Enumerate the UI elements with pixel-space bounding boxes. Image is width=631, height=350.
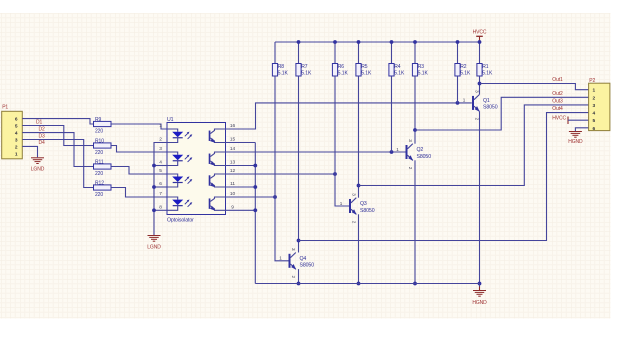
resistor R6 5.1K	[332, 42, 348, 77]
svg-text:R9: R9	[95, 117, 102, 123]
svg-text:S8050: S8050	[360, 208, 375, 214]
svg-text:5.1K: 5.1K	[482, 71, 493, 77]
connector P2	[589, 78, 610, 132]
svg-text:11: 11	[230, 181, 235, 187]
svg-text:Q1: Q1	[483, 98, 490, 104]
svg-text:P2: P2	[589, 78, 595, 84]
resistor R2 5.1K	[455, 42, 471, 77]
svg-text:5: 5	[159, 168, 162, 174]
svg-text:Out3: Out3	[552, 98, 563, 104]
svg-text:R7: R7	[301, 64, 308, 70]
svg-text:Out2: Out2	[552, 91, 563, 97]
net label Out1	[552, 77, 563, 83]
transistor Q2 S8050	[396, 139, 431, 170]
ground LGND at P1	[31, 158, 45, 173]
svg-text:S8050: S8050	[417, 154, 432, 160]
svg-text:R10: R10	[95, 138, 104, 144]
svg-text:D4: D4	[39, 140, 46, 146]
svg-text:1: 1	[15, 151, 18, 157]
LED D2 inside U1 channel 2	[167, 152, 192, 166]
junction Q3 collector node	[357, 184, 361, 188]
svg-text:Out4: Out4	[552, 106, 563, 112]
svg-text:2: 2	[159, 137, 162, 143]
junction R8 column pin10	[273, 195, 277, 199]
net label D1	[36, 120, 43, 126]
svg-text:R5: R5	[361, 64, 368, 70]
resistor R4 5.1K	[389, 42, 405, 77]
svg-text:U1: U1	[167, 117, 174, 123]
resistor R7 5.1K	[296, 42, 312, 77]
svg-text:2: 2	[291, 276, 296, 279]
svg-text:Out1: Out1	[552, 77, 563, 83]
svg-text:7: 7	[159, 191, 162, 197]
wire Q2 collector to R3 node	[414, 76, 416, 144]
junction top bus at R4	[390, 40, 394, 44]
wire HGND emitter bus bottom	[255, 283, 479, 285]
svg-text:3: 3	[15, 138, 18, 144]
svg-text:R2: R2	[460, 64, 467, 70]
svg-text:5.1K: 5.1K	[361, 71, 372, 77]
ground LGND at U1	[147, 236, 161, 251]
svg-text:R11: R11	[95, 159, 104, 165]
wire HGND bus drop to ground	[479, 284, 481, 291]
svg-text:3: 3	[593, 103, 596, 109]
resistor R3 5.1K	[412, 42, 428, 77]
wire P1 pin3 to R12 (net D4)	[22, 140, 93, 188]
wire U1 pin9 to emitter bus	[226, 209, 256, 211]
svg-text:2: 2	[475, 118, 480, 121]
svg-text:3: 3	[159, 146, 162, 152]
svg-text:D1: D1	[36, 120, 43, 126]
svg-text:HVCC: HVCC	[552, 115, 566, 121]
svg-text:R4: R4	[394, 64, 401, 70]
svg-text:LGND: LGND	[147, 245, 161, 251]
resistor R9 220	[94, 117, 112, 135]
svg-text:5: 5	[15, 124, 18, 130]
svg-text:R1: R1	[482, 64, 489, 70]
wire R12 to U1 pin7	[111, 188, 167, 198]
junction top bus at R7	[297, 40, 301, 44]
svg-text:5: 5	[593, 118, 596, 124]
svg-text:8: 8	[159, 205, 162, 211]
power HVCC at P2 pin5	[552, 115, 588, 124]
wire Out3 Q3 collector to P2 pin3	[359, 105, 589, 186]
junction pin9 emitter bus	[253, 208, 257, 212]
svg-text:1: 1	[159, 123, 162, 129]
wire Q3 collector to R5 node	[358, 76, 360, 198]
junction U1 pin4 cathode bus	[152, 164, 156, 168]
svg-text:5.1K: 5.1K	[278, 71, 289, 77]
junction Q1 collector node	[478, 82, 482, 86]
svg-text:16: 16	[230, 123, 236, 129]
wire HVCC top bus	[275, 41, 480, 43]
svg-text:220: 220	[95, 128, 103, 134]
U1 right pin numbers 16-9	[230, 123, 236, 210]
svg-text:6: 6	[15, 117, 18, 123]
resistor R10 220	[94, 138, 112, 156]
svg-text:HVCC: HVCC	[473, 30, 487, 36]
junction R4 on Q2 base net	[390, 76, 394, 154]
svg-text:3: 3	[408, 139, 413, 142]
svg-text:220: 220	[95, 171, 103, 177]
svg-text:5.1K: 5.1K	[460, 71, 471, 77]
svg-text:2: 2	[15, 144, 18, 150]
svg-text:Q2: Q2	[417, 147, 424, 153]
junction top bus at R3	[413, 40, 417, 44]
svg-text:D3: D3	[39, 134, 46, 140]
wire U1 pin12 to R6 column	[226, 173, 336, 175]
svg-text:2: 2	[593, 95, 596, 101]
svg-text:D2: D2	[39, 126, 46, 132]
connector P1	[2, 105, 23, 159]
wire Q2 emitter to HGND bus	[414, 160, 416, 283]
wire U1 pin11 to emitter bus	[226, 186, 256, 188]
phototransistor inside U1 channel 1	[209, 129, 226, 143]
svg-text:5.1K: 5.1K	[338, 71, 349, 77]
wire opto emitter bus vertical	[254, 143, 256, 284]
junction U1 pin8 cathode bus	[152, 208, 156, 212]
wire P1 pin6 to R9 (net D1)	[22, 119, 93, 124]
LED D4 inside U1 channel 4	[167, 197, 192, 210]
power HVCC top	[473, 30, 487, 42]
wire R9 to U1 pin1	[111, 124, 167, 129]
wire U1 pin14 to Q2 base with R4 pullup	[226, 151, 406, 153]
svg-text:R12: R12	[95, 180, 104, 186]
svg-text:15: 15	[230, 137, 236, 143]
junction Q2 collector node	[413, 128, 417, 132]
svg-text:2: 2	[352, 221, 357, 224]
junction top bus at R1	[478, 40, 482, 44]
resistor R8 5.1K	[272, 42, 288, 77]
wire Q4 collector to R7 node	[298, 76, 300, 253]
svg-text:10: 10	[230, 191, 236, 197]
wire P1 pin5 to R10 (net D2)	[22, 126, 93, 146]
svg-text:220: 220	[95, 192, 103, 198]
junction pin11 emitter bus	[253, 185, 257, 189]
svg-text:1: 1	[593, 88, 596, 94]
transistor Q3 S8050	[340, 193, 375, 224]
svg-text:4: 4	[159, 160, 162, 166]
svg-text:3: 3	[475, 90, 480, 93]
net label D4	[39, 140, 46, 146]
resistor R1 5.1K	[477, 42, 493, 77]
junction Q4 collector node	[297, 239, 301, 243]
wire R10 to U1 pin3	[111, 146, 167, 153]
wire Q1 collector to R1 and Out1 node	[479, 76, 481, 95]
transistor Q1 S8050	[463, 90, 498, 121]
junction R2 on Q1 base net	[456, 76, 460, 105]
junction top bus at R6	[333, 40, 337, 44]
svg-text:9: 9	[231, 205, 234, 211]
junction Q3 emitter on HGND bus	[357, 282, 361, 286]
op-amp U1 Optoisolator body	[167, 117, 226, 223]
junction Q2 emitter on HGND bus	[413, 282, 417, 286]
svg-text:5.1K: 5.1K	[418, 71, 429, 77]
phototransistor inside U1 channel 4	[209, 197, 226, 211]
svg-text:3: 3	[352, 193, 357, 196]
wire U1 pin13 to emitter bus	[226, 165, 256, 167]
wire Q4 emitter to HGND bus	[298, 269, 300, 283]
net label D3	[39, 134, 46, 140]
svg-text:R6: R6	[338, 64, 345, 70]
svg-text:3: 3	[291, 248, 296, 251]
wire Out1 Q1 collector to P2 pin1	[480, 84, 589, 90]
wire Out4 Q4 collector to P2 pin4	[299, 113, 589, 241]
svg-text:14: 14	[230, 146, 236, 152]
svg-text:P1: P1	[2, 105, 8, 111]
resistor R12 220	[94, 180, 112, 198]
resistor R11 220	[94, 159, 112, 177]
ground HGND at P2	[568, 132, 583, 145]
junction R6 column pin12	[333, 172, 337, 176]
wire U1 pin16 to Q1 base with R2 pullup	[226, 103, 472, 129]
LED D1 inside U1 channel 1	[167, 129, 192, 143]
svg-text:13: 13	[230, 160, 236, 166]
svg-text:12: 12	[230, 168, 236, 174]
wire R11 to U1 pin5	[111, 167, 167, 175]
svg-text:HGND: HGND	[472, 300, 487, 306]
wire Out2 Q2 collector to P2 pin2	[415, 97, 589, 130]
svg-text:HGND: HGND	[568, 139, 583, 145]
svg-text:S8050: S8050	[483, 105, 498, 111]
svg-text:220: 220	[95, 150, 103, 156]
resistor R5 5.1K	[356, 42, 372, 77]
phototransistor inside U1 channel 2	[209, 152, 226, 166]
wire U1 pin15 to emitter bus	[226, 142, 256, 144]
junction top bus at R5	[357, 40, 361, 44]
svg-text:4: 4	[593, 111, 596, 117]
junction Q4 emitter on HGND bus	[297, 282, 301, 286]
svg-text:R8: R8	[278, 64, 285, 70]
wire Q3 emitter to HGND bus	[358, 214, 360, 283]
svg-text:S8050: S8050	[300, 263, 315, 269]
svg-text:Q3: Q3	[360, 201, 367, 207]
svg-text:LGND: LGND	[31, 167, 45, 173]
ground HGND at bottom bus	[472, 291, 487, 306]
wire P2 pin6 to HGND	[575, 128, 588, 131]
svg-text:5.1K: 5.1K	[301, 71, 312, 77]
net label Out2	[552, 91, 563, 97]
junction U1 pin6 cathode bus	[152, 185, 156, 189]
wire R8 column to Q4 base	[275, 76, 289, 261]
U1 left pin numbers 1-8	[159, 123, 162, 210]
wire Q1 emitter to HGND bus	[479, 111, 481, 283]
svg-text:5.1K: 5.1K	[394, 71, 405, 77]
wire P1 pin4 to R11 (net D3)	[22, 133, 93, 167]
net label Out3	[552, 98, 563, 104]
svg-text:Q4: Q4	[300, 256, 307, 262]
net label Out4	[552, 106, 563, 112]
junction top bus at R2	[456, 40, 460, 44]
junction Q1 emitter on HGND bus	[478, 282, 482, 286]
net label D2	[39, 126, 46, 132]
wire U1 cathode bus pins 2,4,6,8 to LGND	[154, 143, 167, 236]
LED D3 inside U1 channel 3	[167, 174, 192, 187]
wire R6 column to Q3 base	[335, 76, 349, 206]
svg-text:R3: R3	[418, 64, 425, 70]
phototransistor inside U1 channel 3	[209, 174, 226, 187]
svg-text:2: 2	[408, 167, 413, 170]
wire P1 pin2 to LGND	[22, 146, 37, 157]
transistor Q4 S8050	[279, 248, 314, 278]
wire U1 pin10 to R8 column	[226, 196, 276, 198]
svg-text:6: 6	[593, 126, 596, 132]
svg-text:Optoisolator: Optoisolator	[167, 217, 194, 223]
svg-text:4: 4	[15, 131, 18, 137]
junction pin13 emitter bus	[253, 164, 257, 168]
svg-text:6: 6	[159, 181, 162, 187]
